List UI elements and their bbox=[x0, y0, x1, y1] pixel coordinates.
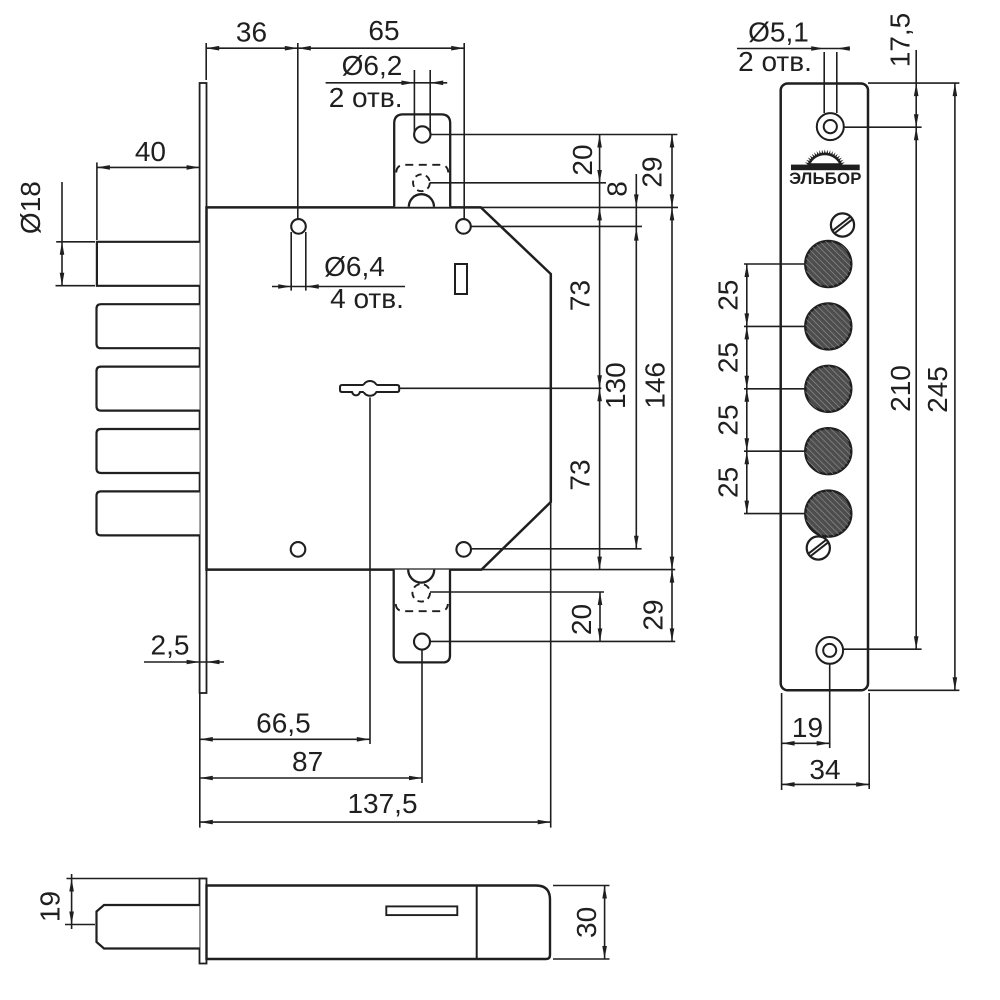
top countersunk screw hole O5.1 bbox=[817, 113, 844, 140]
ELBOR logo saw-blade dome bbox=[809, 154, 841, 165]
svg-text:40: 40 bbox=[135, 136, 166, 167]
extension: bottom plate hole down bbox=[421, 650, 423, 783]
side view divider line bbox=[476, 886, 478, 960]
dimension line 17.5/210 bbox=[915, 50, 917, 649]
arrows 66.5 bbox=[200, 737, 213, 742]
arrow 36 left bbox=[206, 46, 219, 51]
dimension line O18 bbox=[61, 182, 63, 286]
dimension 2.5 (faceplate thickness) line bbox=[144, 661, 224, 663]
svg-text:8: 8 bbox=[602, 181, 633, 197]
bolt 5 front (hatched circle) bbox=[805, 491, 851, 537]
extension: bottom hole centerline right bbox=[843, 648, 922, 650]
side view faceplate strip bbox=[200, 879, 207, 964]
svg-text:25: 25 bbox=[712, 467, 743, 498]
svg-text:2,5: 2,5 bbox=[151, 630, 190, 661]
bottom fixing screw (slotted) bbox=[807, 536, 830, 559]
top plate hidden edge (dashed) bbox=[396, 165, 448, 173]
svg-text:29: 29 bbox=[637, 156, 668, 187]
arrows dim 73 lower bbox=[597, 388, 602, 401]
body top edge extended right bbox=[481, 206, 678, 208]
extension line from bottom plate dashed hole to right bbox=[430, 591, 604, 593]
svg-text:Ø18: Ø18 bbox=[15, 181, 46, 234]
svg-text:19: 19 bbox=[792, 712, 823, 743]
dimension line 34 bbox=[782, 783, 870, 785]
extension: body right edge down bbox=[550, 502, 552, 828]
bolt centerline extension y=451.2 bbox=[744, 450, 805, 452]
svg-text:210: 210 bbox=[885, 365, 916, 412]
bottom plate semicircular notch bbox=[408, 570, 434, 583]
arrows bottom 20 bbox=[598, 592, 603, 605]
dimension line 25 chain bbox=[746, 264, 748, 514]
bolt 3 front (hatched circle) bbox=[805, 366, 851, 412]
svg-text:25: 25 bbox=[712, 342, 743, 373]
bolt centerline extension y=513.6 bbox=[744, 513, 805, 515]
dimension line bottom 20 bbox=[599, 592, 601, 641]
deadbolt cylinder 3 (left, main view) bbox=[97, 367, 200, 411]
rectangular slot in lock body bbox=[455, 264, 467, 294]
svg-text:20: 20 bbox=[567, 144, 598, 175]
arrows 245 bbox=[953, 83, 958, 96]
extension: bottom hole down bbox=[829, 664, 831, 748]
extension line down to top-right body hole bbox=[463, 43, 465, 219]
key spindle symbol (cross-section bar with bumps) bbox=[352, 381, 377, 396]
dimension line 19 (right view) bbox=[782, 742, 830, 744]
extension: side plate top left bbox=[67, 878, 200, 880]
top plate hidden hole (dashed circle) bbox=[413, 174, 430, 191]
svg-text:25: 25 bbox=[712, 404, 743, 435]
extension lines O5.1 bbox=[823, 52, 825, 113]
faceplate front view outline bbox=[781, 84, 868, 691]
arrows dim 29 bottom bbox=[670, 570, 675, 583]
arrow dim 130 bottom bbox=[634, 536, 639, 549]
extension lines for O6.2 bbox=[413, 70, 415, 133]
svg-text:87: 87 bbox=[292, 746, 323, 777]
dimension line 66.5 bbox=[200, 738, 370, 740]
svg-text:36: 36 bbox=[236, 17, 267, 48]
arrows 19 bbox=[782, 741, 795, 746]
arrows 30 bbox=[602, 886, 607, 899]
svg-text:245: 245 bbox=[922, 366, 953, 413]
extension: plate bottom edge right bbox=[868, 689, 959, 691]
svg-text:Ø5,1: Ø5,1 bbox=[748, 17, 809, 48]
extension line from top-right body hole to right bbox=[471, 225, 642, 227]
lock faceplate (side strip), main view bbox=[200, 83, 207, 693]
bottom plate hidden edge (dashed) bbox=[396, 604, 448, 611]
svg-text:2 отв.: 2 отв. bbox=[738, 46, 812, 77]
arrows 34 bbox=[782, 782, 795, 787]
arrows 210 bbox=[914, 127, 919, 140]
arrows 87 bbox=[200, 776, 213, 781]
dimension line 36/65 at top bbox=[206, 47, 464, 49]
svg-text:130: 130 bbox=[600, 362, 631, 409]
arrows at 36/65 junction bbox=[285, 46, 298, 51]
bottom plate hidden hole (dashed circle) bbox=[412, 584, 430, 602]
extension line from bottom plate hole to right bbox=[430, 640, 675, 642]
deadbolt cylinder 4 (left, main view) bbox=[97, 429, 200, 473]
arrows 19 side bbox=[69, 879, 74, 892]
arrows 137.5 bbox=[200, 820, 213, 825]
arrow 65 right bbox=[451, 46, 464, 51]
arrows O6.4 (outside) bbox=[278, 284, 291, 289]
bolt centerline extension y=264.0 bbox=[744, 263, 805, 265]
ELBOR logo saw-blade teeth bbox=[805, 149, 845, 165]
arrows dim 29 top bbox=[670, 135, 675, 148]
extension line from hole x=298.5 (36/65 datum) bbox=[297, 43, 299, 219]
svg-text:30: 30 bbox=[571, 907, 602, 938]
svg-text:17,5: 17,5 bbox=[885, 13, 916, 68]
extension lines for O18 (bolt1 edges extended left) bbox=[56, 241, 95, 243]
body fixing hole O6.4 top-left bbox=[291, 219, 306, 234]
extension lines O6.4 (tangents of top-left hole) bbox=[290, 232, 292, 291]
dimension line x=599.6 (20 / 73 / 73) bbox=[599, 135, 601, 570]
extension line 40 left (bolt edge) bbox=[96, 162, 98, 240]
extension: key centerline down bbox=[369, 397, 371, 744]
side view deadbolt bbox=[97, 905, 200, 949]
svg-text:Ø6,2: Ø6,2 bbox=[342, 50, 403, 81]
arrows 2.5 (outside) bbox=[187, 660, 200, 665]
arrows 25 chain bbox=[745, 264, 750, 277]
extension: side bolt centerline bbox=[65, 924, 95, 926]
body fixing hole O6.4 bottom-left bbox=[291, 542, 306, 557]
dimension line x=672 (29 / 146 / 29) bbox=[671, 135, 673, 642]
extension line from top plate hole to right bbox=[431, 134, 678, 136]
extension line from bottom-right body hole to right bbox=[472, 548, 642, 550]
svg-text:146: 146 bbox=[640, 362, 671, 409]
bottom plate screw hole bbox=[414, 634, 430, 650]
side view lock body bbox=[207, 886, 551, 960]
dimension line 245 bbox=[954, 83, 956, 690]
arrows dim 73 upper bbox=[597, 207, 602, 220]
body fixing hole O6.4 bottom-right bbox=[456, 542, 471, 557]
centerline from key to right bbox=[399, 387, 601, 389]
arrows O6.2 (outside) bbox=[401, 81, 414, 86]
svg-text:137,5: 137,5 bbox=[347, 788, 417, 819]
ELBOR logo bar bbox=[791, 165, 860, 171]
svg-text:Ø6,4: Ø6,4 bbox=[324, 251, 385, 282]
deadbolt cylinder 1 (left, main view) bbox=[97, 242, 200, 286]
extension: side body top right bbox=[553, 885, 610, 887]
bottom countersunk screw hole bbox=[816, 637, 843, 664]
arrows O18 bbox=[60, 242, 65, 255]
bolt centerline extension y=388.8 bbox=[744, 388, 805, 390]
body fixing hole O6.4 top-right bbox=[456, 219, 471, 234]
svg-text:29: 29 bbox=[637, 599, 668, 630]
svg-text:20: 20 bbox=[566, 604, 597, 635]
arrows dim 8 (outside) bbox=[634, 194, 639, 207]
side view slot bbox=[386, 906, 457, 915]
extension: top hole centerline right bbox=[844, 126, 922, 128]
dimension line x=636.3 (8 / 130) bbox=[635, 174, 637, 549]
extension: faceplate left edge down bbox=[199, 693, 201, 828]
top plate semicircular notch bbox=[409, 194, 434, 207]
svg-text:34: 34 bbox=[809, 754, 840, 785]
arrows 40 bbox=[97, 165, 110, 170]
arrows 17.5 bbox=[914, 83, 919, 96]
deadbolt cylinder 5 (left, main view) bbox=[97, 491, 200, 535]
arrows O5.1 (outside) bbox=[811, 46, 824, 51]
dimension line 19 (side view) bbox=[71, 874, 73, 929]
extension: plate right edge down bbox=[868, 693, 870, 789]
dimension line 137.5 bbox=[200, 821, 551, 823]
dimension line 40 bbox=[97, 166, 200, 168]
bolt 2 front (hatched circle) bbox=[805, 303, 851, 349]
bolt centerline extension y=326.4 bbox=[744, 325, 805, 327]
extension: side body bottom right bbox=[553, 958, 610, 960]
bottom mounting plate outline bbox=[394, 570, 450, 663]
svg-text:19: 19 bbox=[35, 891, 66, 922]
dimension line 30 bbox=[604, 886, 606, 960]
extension: plate left edge down bbox=[781, 693, 783, 790]
bolt 4 front (hatched circle) bbox=[805, 428, 851, 474]
body bottom edge extended right bbox=[482, 569, 676, 571]
svg-text:2 отв.: 2 отв. bbox=[329, 82, 403, 113]
svg-text:66,5: 66,5 bbox=[256, 708, 311, 739]
extension line from faceplate right edge up bbox=[205, 43, 207, 80]
svg-text:ЭЛЬБОР: ЭЛЬБОР bbox=[789, 169, 862, 188]
svg-text:4 отв.: 4 отв. bbox=[330, 283, 404, 314]
extension: plate top edge right bbox=[868, 82, 959, 84]
deadbolt cylinder 2 (left, main view) bbox=[97, 304, 200, 348]
extension line from top plate dashed hole to right bbox=[430, 182, 606, 184]
bolt 1 front (hatched circle) bbox=[805, 241, 851, 287]
lock body outline with chamfered right corners bbox=[207, 207, 551, 569]
arrows dim 146 bbox=[670, 207, 675, 220]
top plate screw hole O6.2 bbox=[414, 126, 430, 142]
dimension line 87 bbox=[200, 777, 422, 779]
top mounting plate outline bbox=[394, 114, 450, 206]
svg-text:73: 73 bbox=[565, 459, 596, 490]
svg-text:73: 73 bbox=[565, 280, 596, 311]
arrows dim 20 top bbox=[597, 135, 602, 148]
top fixing screw (slotted) bbox=[831, 213, 854, 236]
svg-text:25: 25 bbox=[712, 280, 743, 311]
svg-text:65: 65 bbox=[368, 15, 399, 46]
